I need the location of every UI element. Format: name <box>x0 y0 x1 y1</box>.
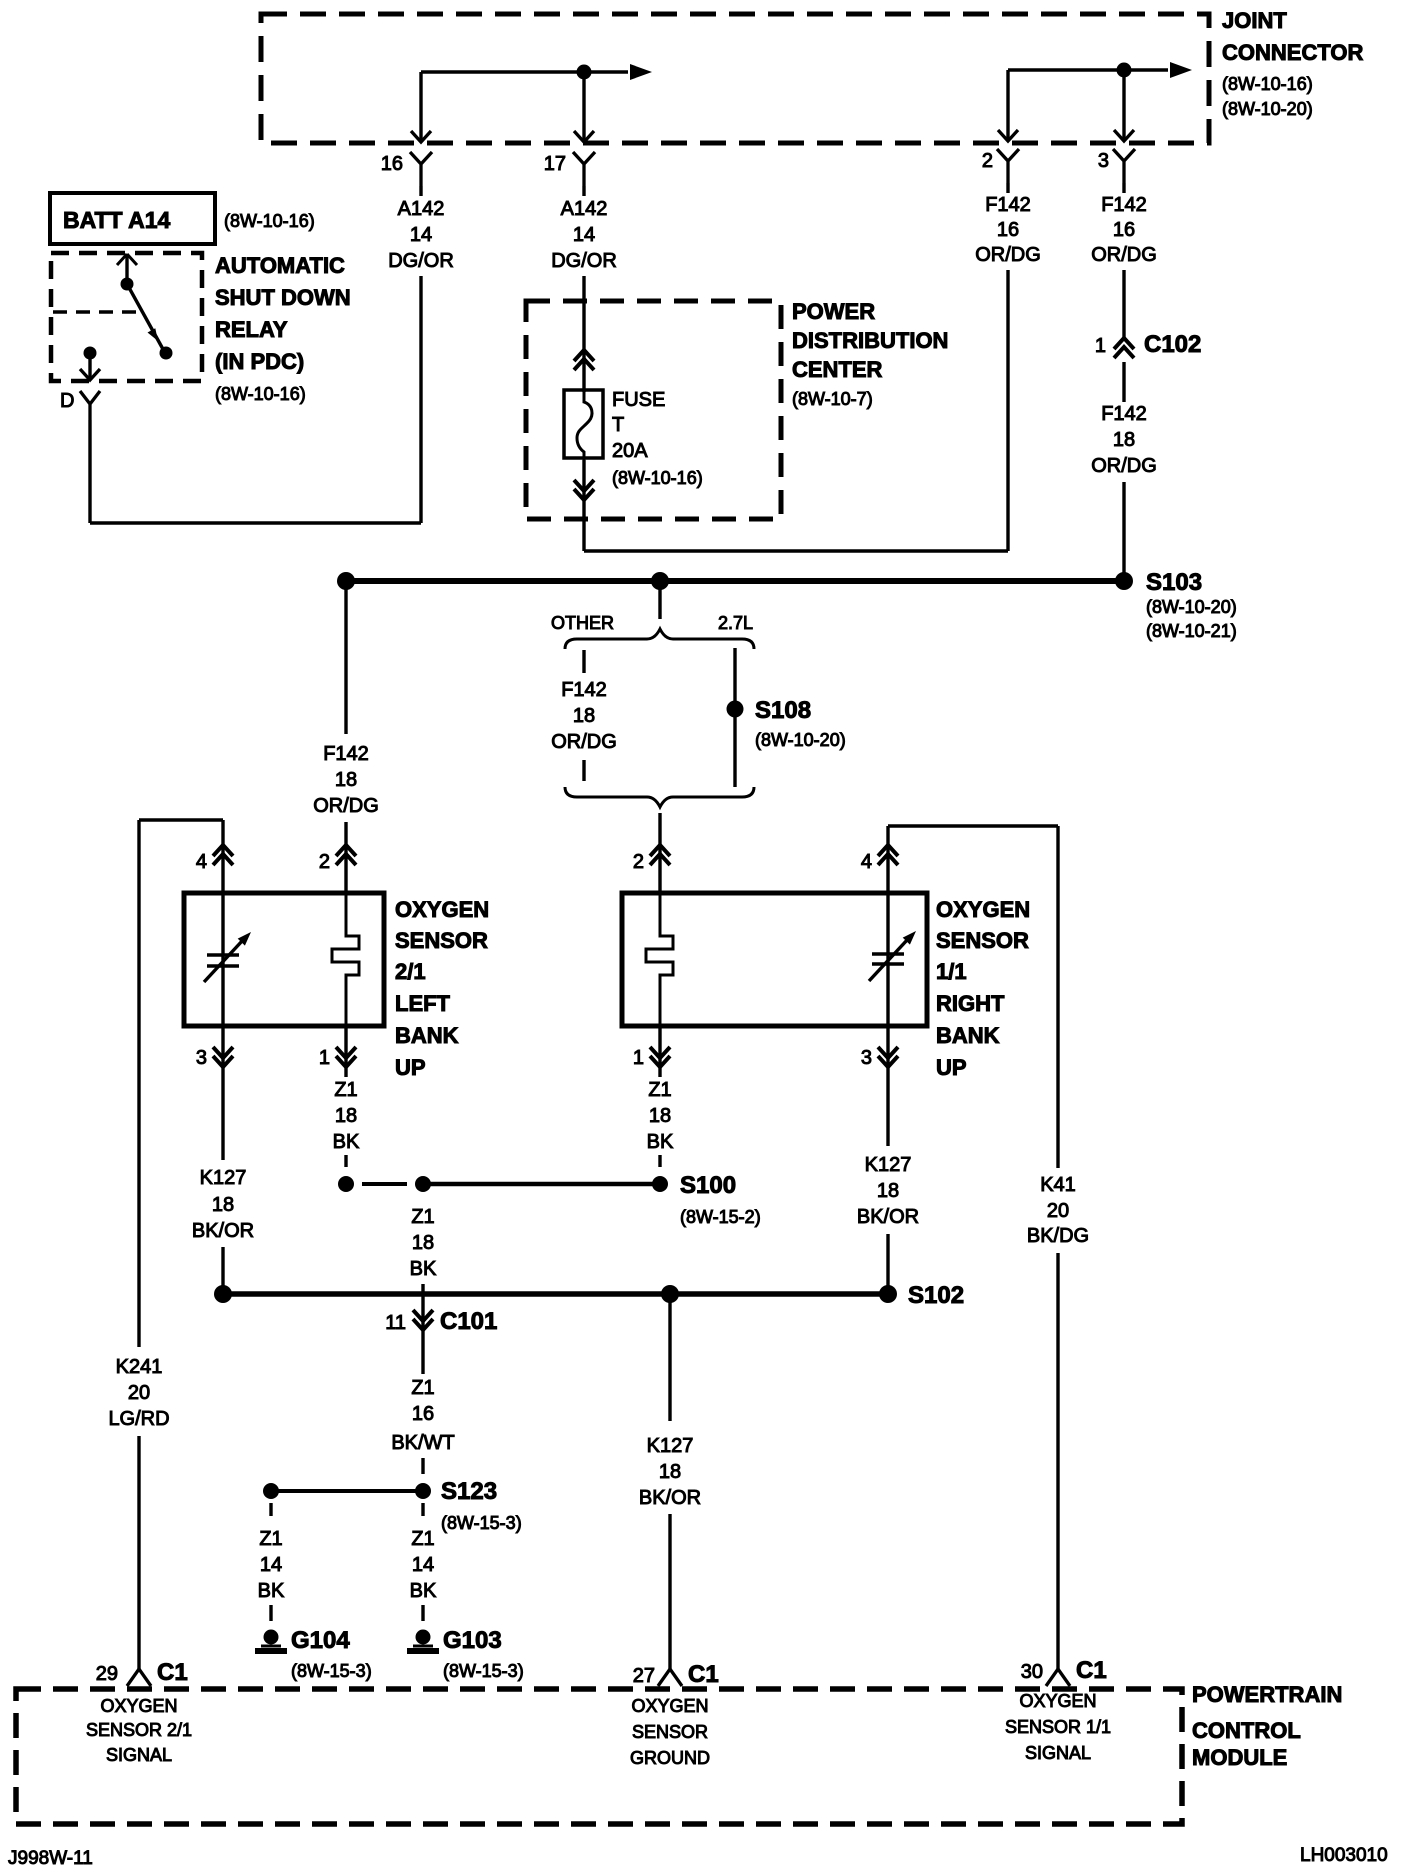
svg-text:1/1: 1/1 <box>936 959 967 984</box>
svg-text:14: 14 <box>260 1554 282 1576</box>
svg-text:S100: S100 <box>680 1172 736 1199</box>
svg-text:16: 16 <box>1113 219 1135 241</box>
svg-text:S103: S103 <box>1146 569 1202 596</box>
svg-text:BK/OR: BK/OR <box>192 1220 254 1242</box>
svg-text:K241: K241 <box>116 1356 163 1378</box>
svg-text:F142: F142 <box>1101 194 1147 216</box>
svg-text:3: 3 <box>196 1047 207 1069</box>
svg-text:BK/DG: BK/DG <box>1027 1225 1089 1247</box>
svg-text:LG/RD: LG/RD <box>108 1408 169 1430</box>
svg-text:S108: S108 <box>755 697 811 724</box>
svg-text:OXYGEN: OXYGEN <box>1019 1691 1096 1711</box>
svg-text:18: 18 <box>212 1194 234 1216</box>
svg-text:4: 4 <box>196 851 207 873</box>
svg-text:G104: G104 <box>291 1627 350 1654</box>
svg-text:20: 20 <box>1047 1200 1069 1222</box>
svg-text:SENSOR: SENSOR <box>632 1722 708 1742</box>
svg-text:(8W-10-16): (8W-10-16) <box>1222 74 1313 94</box>
svg-text:FUSE: FUSE <box>612 389 665 411</box>
svg-text:(8W-15-3): (8W-15-3) <box>441 1513 522 1533</box>
svg-text:BK/OR: BK/OR <box>639 1487 701 1509</box>
svg-text:F142: F142 <box>561 679 607 701</box>
svg-text:18: 18 <box>649 1105 671 1127</box>
svg-text:(8W-10-20): (8W-10-20) <box>755 730 846 750</box>
svg-text:C102: C102 <box>1144 331 1201 358</box>
svg-text:CENTER: CENTER <box>792 357 883 382</box>
svg-text:AUTOMATIC: AUTOMATIC <box>215 253 345 278</box>
svg-text:S123: S123 <box>441 1478 497 1505</box>
svg-text:OXYGEN: OXYGEN <box>936 897 1030 922</box>
svg-text:F142: F142 <box>1101 403 1147 425</box>
svg-text:A142: A142 <box>561 198 608 220</box>
svg-text:BK: BK <box>410 1580 437 1602</box>
svg-text:RIGHT: RIGHT <box>936 991 1005 1016</box>
svg-text:Z1: Z1 <box>411 1377 434 1399</box>
svg-text:Z1: Z1 <box>334 1079 357 1101</box>
svg-text:BK: BK <box>333 1131 360 1153</box>
svg-text:SIGNAL: SIGNAL <box>1025 1743 1091 1763</box>
svg-text:1: 1 <box>633 1047 644 1069</box>
svg-text:SHUT DOWN: SHUT DOWN <box>215 285 351 310</box>
svg-text:16: 16 <box>381 153 403 175</box>
svg-text:OR/DG: OR/DG <box>313 795 379 817</box>
svg-text:SENSOR: SENSOR <box>936 928 1029 953</box>
svg-text:J998W-11: J998W-11 <box>8 1848 93 1869</box>
svg-text:2.7L: 2.7L <box>718 613 753 633</box>
svg-text:K41: K41 <box>1040 1174 1076 1196</box>
svg-text:DG/OR: DG/OR <box>551 250 617 272</box>
svg-text:BK: BK <box>647 1131 674 1153</box>
svg-text:OXYGEN: OXYGEN <box>631 1696 708 1716</box>
svg-text:18: 18 <box>335 769 357 791</box>
svg-text:OXYGEN: OXYGEN <box>100 1696 177 1716</box>
svg-text:SENSOR 1/1: SENSOR 1/1 <box>1005 1717 1111 1737</box>
svg-text:17: 17 <box>544 153 566 175</box>
svg-text:16: 16 <box>997 219 1019 241</box>
svg-text:16: 16 <box>412 1403 434 1425</box>
svg-text:(8W-10-16): (8W-10-16) <box>215 384 306 404</box>
svg-text:D: D <box>60 390 74 412</box>
svg-text:K127: K127 <box>865 1154 912 1176</box>
svg-text:UP: UP <box>936 1055 967 1080</box>
svg-text:BK: BK <box>410 1258 437 1280</box>
svg-text:OXYGEN: OXYGEN <box>395 897 489 922</box>
svg-text:MODULE: MODULE <box>1192 1745 1287 1770</box>
svg-text:C1: C1 <box>157 1659 188 1686</box>
svg-text:F142: F142 <box>985 194 1031 216</box>
svg-text:18: 18 <box>1113 429 1135 451</box>
svg-text:JOINT: JOINT <box>1222 8 1287 33</box>
svg-text:(8W-10-20): (8W-10-20) <box>1146 597 1237 617</box>
svg-text:2/1: 2/1 <box>395 959 426 984</box>
svg-text:(8W-10-21): (8W-10-21) <box>1146 621 1237 641</box>
svg-text:C101: C101 <box>440 1308 497 1335</box>
svg-text:2: 2 <box>319 851 330 873</box>
svg-text:UP: UP <box>395 1055 426 1080</box>
svg-text:20: 20 <box>128 1382 150 1404</box>
svg-text:G103: G103 <box>443 1627 502 1654</box>
svg-text:(8W-10-16): (8W-10-16) <box>224 211 315 231</box>
svg-text:DISTRIBUTION: DISTRIBUTION <box>792 328 948 353</box>
svg-text:Z1: Z1 <box>411 1206 434 1228</box>
svg-text:1: 1 <box>1095 335 1106 357</box>
svg-text:SIGNAL: SIGNAL <box>106 1745 172 1765</box>
svg-text:LEFT: LEFT <box>395 991 451 1016</box>
svg-text:BK/OR: BK/OR <box>857 1206 919 1228</box>
svg-text:K127: K127 <box>200 1167 247 1189</box>
svg-text:27: 27 <box>633 1665 655 1687</box>
svg-text:Z1: Z1 <box>648 1079 671 1101</box>
svg-text:BK: BK <box>258 1580 285 1602</box>
svg-text:CONTROL: CONTROL <box>1192 1718 1301 1743</box>
svg-text:SENSOR 2/1: SENSOR 2/1 <box>86 1720 192 1740</box>
svg-text:OR/DG: OR/DG <box>551 731 617 753</box>
svg-text:K127: K127 <box>647 1435 694 1457</box>
svg-text:OR/DG: OR/DG <box>1091 244 1157 266</box>
svg-text:Z1: Z1 <box>411 1528 434 1550</box>
svg-text:BANK: BANK <box>395 1023 459 1048</box>
svg-text:T: T <box>612 414 624 436</box>
svg-text:(IN PDC): (IN PDC) <box>215 349 304 374</box>
svg-text:SENSOR: SENSOR <box>395 928 488 953</box>
svg-text:29: 29 <box>96 1663 118 1685</box>
svg-text:DG/OR: DG/OR <box>388 250 454 272</box>
svg-text:F142: F142 <box>323 743 369 765</box>
svg-text:(8W-10-7): (8W-10-7) <box>792 389 873 409</box>
svg-text:BATT A14: BATT A14 <box>63 207 171 233</box>
svg-text:1: 1 <box>319 1047 330 1069</box>
svg-text:GROUND: GROUND <box>630 1748 710 1768</box>
svg-text:20A: 20A <box>612 440 648 462</box>
svg-text:3: 3 <box>861 1047 872 1069</box>
svg-text:OR/DG: OR/DG <box>1091 455 1157 477</box>
svg-text:BANK: BANK <box>936 1023 1000 1048</box>
svg-text:2: 2 <box>982 150 993 172</box>
svg-text:18: 18 <box>573 705 595 727</box>
svg-text:(8W-15-2): (8W-15-2) <box>680 1207 761 1227</box>
svg-text:14: 14 <box>573 224 595 246</box>
svg-text:OTHER: OTHER <box>551 613 614 633</box>
svg-text:18: 18 <box>877 1180 899 1202</box>
svg-text:18: 18 <box>659 1461 681 1483</box>
svg-text:11: 11 <box>385 1312 406 1334</box>
svg-text:POWER: POWER <box>792 299 875 324</box>
svg-text:4: 4 <box>861 851 872 873</box>
svg-text:2: 2 <box>633 851 644 873</box>
svg-text:S102: S102 <box>908 1282 964 1309</box>
svg-text:30: 30 <box>1021 1661 1043 1683</box>
svg-text:OR/DG: OR/DG <box>975 244 1041 266</box>
svg-text:CONNECTOR: CONNECTOR <box>1222 40 1363 65</box>
svg-text:RELAY: RELAY <box>215 317 288 342</box>
svg-text:LH003010: LH003010 <box>1300 1845 1388 1866</box>
svg-text:(8W-15-3): (8W-15-3) <box>291 1661 372 1681</box>
svg-text:(8W-15-3): (8W-15-3) <box>443 1661 524 1681</box>
svg-text:POWERTRAIN: POWERTRAIN <box>1192 1682 1342 1707</box>
svg-text:3: 3 <box>1098 150 1109 172</box>
svg-text:18: 18 <box>335 1105 357 1127</box>
svg-text:C1: C1 <box>688 1661 719 1688</box>
svg-text:14: 14 <box>412 1554 434 1576</box>
svg-text:Z1: Z1 <box>259 1528 282 1550</box>
svg-text:(8W-10-20): (8W-10-20) <box>1222 99 1313 119</box>
svg-text:(8W-10-16): (8W-10-16) <box>612 468 703 488</box>
svg-text:BK/WT: BK/WT <box>391 1432 454 1454</box>
svg-text:14: 14 <box>410 224 432 246</box>
svg-text:A142: A142 <box>398 198 445 220</box>
svg-text:C1: C1 <box>1076 1657 1107 1684</box>
svg-text:18: 18 <box>412 1232 434 1254</box>
